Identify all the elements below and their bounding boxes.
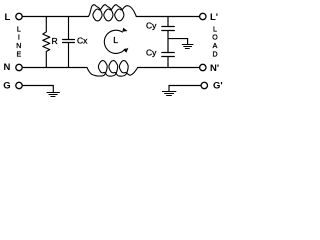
svg-text:G: G	[3, 80, 10, 91]
wire G to earth	[22, 86, 53, 93]
resistor R	[43, 17, 50, 68]
svg-text:N: N	[4, 62, 11, 73]
svg-text:R: R	[52, 36, 58, 46]
wire top rail right	[136, 16, 199, 18]
choke flux arrow	[104, 30, 125, 53]
node LINE label	[16, 26, 21, 58]
svg-text:Cx: Cx	[77, 35, 88, 45]
capacitor Cy upper	[162, 17, 175, 53]
svg-text:E: E	[16, 52, 21, 59]
terminal N	[16, 64, 22, 70]
svg-text:L: L	[17, 26, 21, 33]
svg-text:L: L	[113, 35, 118, 45]
terminal G	[16, 82, 22, 88]
svg-text:G': G'	[213, 80, 223, 91]
wire bottom rail left	[22, 67, 87, 69]
svg-text:Cy: Cy	[146, 47, 157, 57]
wire bottom rail right	[138, 67, 200, 69]
svg-text:Cy: Cy	[146, 21, 157, 31]
terminal L'	[200, 13, 206, 19]
ground right (earth)	[162, 92, 176, 96]
wire top rail left	[22, 16, 88, 18]
svg-text:I: I	[18, 35, 20, 42]
wire earth to G'	[169, 86, 201, 92]
svg-text:L: L	[5, 12, 11, 23]
svg-text:O: O	[212, 35, 218, 42]
wire mid node to earth	[168, 39, 188, 45]
svg-text:D: D	[212, 52, 217, 59]
svg-text:L': L'	[210, 12, 218, 23]
terminal G'	[201, 82, 207, 88]
inductor top winding	[88, 5, 136, 21]
terminal N'	[200, 64, 206, 70]
inductor bottom winding	[87, 61, 138, 77]
ground mid (earth)	[182, 45, 194, 49]
node LOAD label	[212, 26, 218, 58]
ground left (earth)	[47, 93, 60, 97]
svg-text:N: N	[16, 43, 21, 50]
svg-text:A: A	[213, 43, 218, 50]
terminal L	[16, 13, 22, 19]
capacitor Cx	[63, 17, 75, 68]
svg-text:L: L	[213, 26, 217, 33]
capacitor Cy lower	[162, 53, 175, 68]
svg-text:N': N'	[210, 63, 219, 74]
